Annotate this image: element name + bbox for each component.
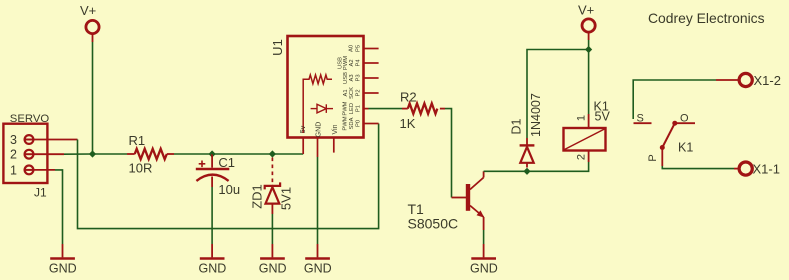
svg-text:GND: GND: [259, 262, 287, 276]
svg-text:PWM: PWM: [343, 56, 349, 70]
svg-text:GND: GND: [304, 262, 332, 276]
svg-text:SDA: SDA: [349, 117, 355, 129]
connector J1 SERVO: [3, 113, 77, 200]
node junction C1: [209, 150, 216, 157]
svg-text:P4: P4: [356, 59, 362, 67]
svg-text:A2: A2: [349, 59, 355, 66]
svg-text:P: P: [647, 154, 659, 161]
U1 pin Vin stub (unconnected): [333, 138, 335, 153]
pin 2 stub: [34, 153, 65, 155]
supply V+ (right): [578, 3, 595, 41]
resistor R2: [400, 90, 446, 132]
svg-text:5v: 5v: [300, 125, 307, 133]
pin 3 pad: [25, 135, 34, 144]
svg-text:1: 1: [10, 164, 17, 178]
wire node to D1 top: [527, 50, 589, 139]
relay K1 coil: [564, 100, 611, 163]
svg-text:LED: LED: [349, 103, 355, 114]
svg-text:SCK: SCK: [349, 87, 355, 99]
svg-text:GND: GND: [49, 262, 77, 276]
U1 internal pullup resistor: [303, 75, 332, 133]
svg-text:1: 1: [576, 115, 588, 121]
svg-text:V+: V+: [578, 3, 594, 18]
supply V+ (left): [80, 3, 99, 42]
svg-text:3: 3: [10, 133, 17, 147]
ground (ZD1): [259, 244, 287, 276]
wire: servo signal pin3 down and along bottom rail to U1 P0: [78, 124, 379, 229]
svg-text:ZD1: ZD1: [250, 184, 265, 209]
ground (C1): [199, 244, 227, 276]
svg-text:P0: P0: [356, 120, 362, 127]
pin 3 stub: [34, 139, 78, 141]
svg-text:2: 2: [10, 148, 17, 162]
connector pad X1-1: [734, 162, 780, 177]
svg-text:1K: 1K: [400, 116, 416, 131]
svg-text:GND: GND: [199, 262, 227, 276]
svg-text:10u: 10u: [218, 182, 240, 197]
svg-text:D1: D1: [510, 118, 524, 134]
wire R1 to C1 node: [174, 153, 212, 155]
wire ZD1 down to ground: [271, 214, 273, 244]
wire collector line: [484, 162, 589, 171]
connector pad X1-2: [716, 73, 781, 88]
resistor R1: [127, 133, 174, 176]
relay contact K1: [634, 113, 696, 167]
svg-text:GND: GND: [470, 262, 498, 276]
node junction V+ right: [585, 46, 592, 53]
U1 internal LED: [311, 104, 333, 113]
svg-text:PWM: PWM: [343, 116, 349, 130]
svg-text:J1: J1: [34, 186, 47, 200]
wire T1 emitter to ground: [483, 230, 485, 244]
pin 1 stub: [34, 169, 56, 171]
wire rail C1 to ZD1 node: [212, 153, 272, 155]
node junction V+/R1 rail: [89, 150, 96, 157]
U1 pin P2 stub: [364, 92, 379, 94]
svg-text:R1: R1: [129, 133, 146, 148]
svg-text:P1: P1: [356, 105, 362, 112]
ground (U1): [304, 157, 332, 276]
wire R2 to T1 base: [445, 109, 452, 198]
svg-text:V+: V+: [80, 3, 96, 18]
svg-text:5V1: 5V1: [279, 187, 294, 210]
svg-text:5V: 5V: [595, 110, 611, 124]
U1 pin P5 stub: [364, 48, 379, 50]
IC U1 Digispark: [270, 36, 364, 138]
wire: pin2 to rail: [64, 153, 93, 155]
svg-text:S8050C: S8050C: [408, 216, 459, 232]
wire C1 down to ground: [211, 187, 213, 244]
wire P contact to X1-1: [662, 166, 734, 169]
svg-text:1N4007: 1N4007: [529, 93, 543, 137]
wire X1-2 to S contact: [633, 80, 716, 119]
svg-text:GND: GND: [315, 122, 322, 138]
wire V+ right down to node: [588, 40, 590, 50]
U1 pin labels: [338, 45, 362, 131]
U1 pin 5v stub: [302, 138, 304, 155]
wire rail ZD1 node to U1 5v pin: [272, 153, 303, 155]
wire node to relay pin 1: [588, 50, 590, 115]
svg-text:USB: USB: [343, 72, 349, 84]
svg-text:P2: P2: [356, 89, 362, 96]
svg-text:U1: U1: [270, 39, 285, 56]
svg-text:K1: K1: [678, 141, 693, 155]
svg-text:P3: P3: [356, 74, 362, 81]
wire U1 P1 to R2: [369, 108, 403, 110]
svg-text:X1-2: X1-2: [754, 73, 781, 88]
U1 pin P3 stub: [364, 77, 379, 79]
ground (servo): [49, 244, 77, 276]
wire rail to R1: [93, 153, 128, 155]
node junction D1/relay/T1: [523, 168, 530, 175]
wire: pin1 to GND column: [55, 170, 63, 244]
zener diode ZD1: [250, 158, 294, 215]
pin 2 pad: [25, 150, 34, 159]
svg-text:X1-1: X1-1: [753, 162, 780, 177]
svg-text:P5: P5: [356, 45, 362, 52]
diode D1 1N4007: [510, 93, 544, 167]
U1 pin P0 stub: [364, 123, 379, 125]
U1 pin GND stub: [317, 138, 319, 158]
svg-text:A0: A0: [349, 45, 355, 52]
pin 1 pad: [25, 166, 34, 175]
svg-text:A1: A1: [343, 89, 349, 96]
wire V+ left down to rail: [92, 42, 94, 154]
U1 pin P1 stub: [364, 108, 369, 110]
svg-text:A3: A3: [349, 74, 355, 81]
U1 pin P4 stub: [364, 62, 379, 64]
node junction ZD1: [269, 150, 276, 157]
svg-text:R2: R2: [400, 90, 417, 105]
svg-text:2: 2: [576, 154, 588, 160]
svg-text:Vin: Vin: [332, 124, 339, 134]
transistor T1: [408, 171, 485, 231]
svg-text:USB: USB: [338, 57, 344, 69]
capacitor C1: [196, 154, 240, 197]
ground (T1): [470, 244, 498, 276]
svg-text:PWM: PWM: [343, 101, 349, 115]
svg-text:Codrey Electronics: Codrey Electronics: [648, 10, 765, 26]
svg-text:10R: 10R: [129, 161, 153, 176]
